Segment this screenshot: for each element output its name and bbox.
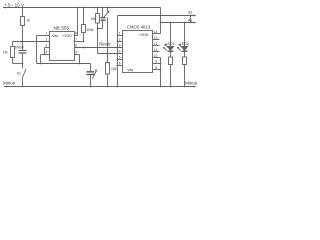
wire 4013 pin14 VDD from rail: [160, 8, 162, 34]
svg-text:LED1: LED1: [166, 42, 175, 46]
resistor R7: [183, 57, 187, 65]
wire ground line under 555: [37, 63, 91, 65]
svg-text:Reset: Reset: [99, 41, 111, 46]
svg-text:100nF: 100nF: [15, 46, 25, 50]
node supply arrow left: [3, 7, 6, 9]
svg-text:Minus: Minus: [3, 80, 16, 85]
wire 4013 pin10 to ground: [153, 57, 161, 59]
resistor R6: [169, 57, 173, 65]
svg-text:11: 11: [154, 48, 158, 52]
wire 4013 pin6 stub: [118, 65, 123, 67]
wire H2 output line to A2: [118, 15, 194, 17]
wire 4013 pin8 stub: [153, 69, 161, 71]
svg-text:14: 14: [154, 30, 158, 34]
node dot 1M loop bottom: [22, 63, 24, 65]
svg-text:1: 1: [119, 32, 121, 36]
resistor R5 10k: [107, 54, 109, 63]
wire 4013 pin2 stub: [118, 41, 123, 43]
svg-text:1M: 1M: [3, 50, 8, 54]
wire node line to 555 pin2: [13, 41, 50, 43]
node arrow at C2: [93, 70, 97, 79]
wire bottom minus rail H4: [4, 86, 194, 88]
wire 555 pin7: [75, 41, 84, 43]
op 4013 box U2: [123, 31, 153, 73]
wire 555 pin8 to rail: [75, 35, 78, 37]
svg-text:NE 555: NE 555: [54, 26, 70, 31]
wire 555 pin3: [45, 47, 50, 49]
svg-text:3: 3: [46, 44, 48, 48]
svg-text:6: 6: [75, 44, 77, 48]
switch S2 reset: [107, 8, 109, 13]
svg-text:12: 12: [154, 42, 158, 46]
svg-text:-Vss: -Vss: [51, 34, 58, 38]
svg-text:2: 2: [119, 38, 121, 42]
node dot H2-x190: [190, 15, 192, 17]
resistor R4 1M reset pullup: [97, 8, 99, 14]
svg-text:S1: S1: [17, 72, 21, 76]
svg-text:+VDD: +VDD: [139, 33, 149, 37]
wire H3 LED line to A1: [161, 22, 194, 24]
wire 4013 pin5 stub: [118, 59, 123, 61]
switch S1: [23, 69, 27, 78]
svg-text:3: 3: [119, 44, 121, 48]
svg-text:A1: A1: [188, 19, 192, 23]
wire 4013 pin1 stub: [118, 35, 123, 37]
wire 555 pin6 to 4013 pin3: [75, 47, 123, 49]
svg-text:9: 9: [155, 60, 157, 64]
svg-text:10: 10: [154, 54, 158, 58]
svg-text:2: 2: [46, 38, 48, 42]
svg-text:5: 5: [119, 56, 121, 60]
diode LED2: [184, 23, 186, 47]
svg-text:CMOS 4013: CMOS 4013: [127, 25, 151, 30]
svg-text:4: 4: [119, 50, 121, 54]
wire left column from rail: [22, 8, 24, 17]
svg-text:8: 8: [155, 66, 157, 70]
wire 555 pin4: [41, 54, 50, 56]
svg-text:4: 4: [46, 51, 48, 55]
svg-text:10k: 10k: [111, 67, 117, 71]
wire 4013 pin11 stub: [153, 51, 160, 53]
wire reset line to 4013 pin4: [98, 53, 123, 55]
svg-text:7: 7: [75, 38, 77, 42]
svg-text:1M: 1M: [91, 17, 96, 21]
node left RC junction: [22, 41, 24, 43]
svg-text:A2: A2: [188, 11, 192, 15]
svg-text:5: 5: [75, 51, 77, 55]
resistor R1: [21, 17, 25, 26]
resistor R3 100k: [83, 8, 85, 25]
op 555 box U1: [50, 32, 75, 61]
diode LED1: [170, 23, 172, 47]
svg-text:6: 6: [119, 62, 121, 66]
wire: [22, 26, 24, 51]
wire 555 pin5: [75, 54, 80, 56]
wire 4013 left vertical: [117, 16, 119, 87]
svg-text:+ 5 - 15 V: + 5 - 15 V: [4, 2, 25, 7]
svg-text:Minus: Minus: [185, 80, 198, 85]
wire 4013 pin13 stub: [153, 39, 160, 41]
capacitor C2 electrolytic: [90, 64, 92, 72]
node dot H3-x190: [190, 22, 192, 24]
wire 4013 pin9 stub: [153, 63, 161, 65]
svg-text:13: 13: [154, 36, 158, 40]
capacitor C1 100nF: [19, 50, 27, 52]
svg-text:-Vss: -Vss: [126, 68, 133, 72]
svg-text:100k: 100k: [86, 28, 94, 32]
svg-text:1k: 1k: [27, 19, 31, 23]
wire 4013 pin12 stub: [153, 45, 160, 47]
capacitor C3: [102, 8, 104, 18]
wire 555 pin1: [37, 35, 50, 37]
svg-text:8: 8: [75, 32, 77, 36]
wire vertical joining H2 and H3 at right: [190, 16, 192, 23]
svg-text:1: 1: [46, 32, 48, 36]
resistor R2 1M: [12, 42, 14, 47]
svg-text:+VDD: +VDD: [62, 34, 72, 38]
svg-text:LED2: LED2: [180, 42, 189, 46]
wire top supply rail H1: [3, 7, 161, 9]
